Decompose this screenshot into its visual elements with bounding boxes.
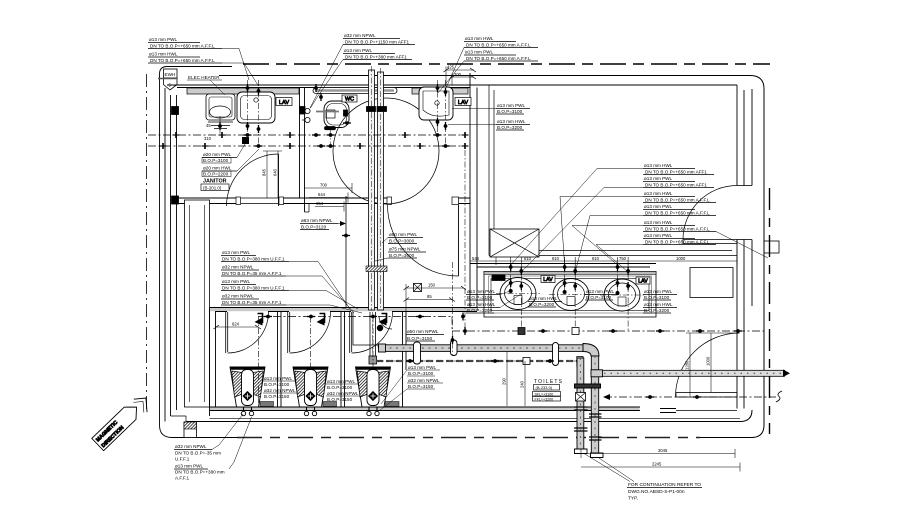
svg-text:ø13 mm HWL: ø13 mm HWL: [529, 296, 558, 301]
svg-text:FFL=+3200: FFL=+3200: [535, 398, 554, 402]
label T11 left of counter: [466, 289, 521, 313]
dims 700/644/654 wc room: [305, 183, 353, 212]
stall door 1 leaf arc hinge: [226, 312, 228, 353]
main elbow down right: [583, 344, 599, 357]
stall partition 3: [403, 312, 407, 408]
svg-text:SFL=+3100: SFL=+3100: [535, 393, 554, 397]
svg-text:644: 644: [318, 192, 326, 197]
svg-text:810: 810: [592, 256, 600, 261]
svg-text:FOR CONTINUATION REFER TO: FOR CONTINUATION REFER TO: [628, 482, 701, 488]
turning circle: [333, 98, 439, 204]
supply symbols top lav: [436, 84, 439, 92]
vertical capsule fittings on gray pipe: [414, 340, 559, 366]
svg-text:B.O.P=3100: B.O.P=3100: [586, 295, 612, 300]
outer west wall: [160, 67, 233, 75]
toilet supply lollipops: [241, 407, 379, 416]
svg-text:ø32 mm NPWL: ø32 mm NPWL: [264, 388, 296, 393]
grid dash-dot line far left vertical: [146, 74, 148, 412]
accessible WC toilet: [302, 101, 351, 146]
supply dash-dot verticals top lav: [437, 80, 439, 135]
svg-text:845: 845: [262, 168, 267, 176]
svg-text:DN TO B.O.P=-35 mm: DN TO B.O.P=-35 mm: [175, 451, 221, 456]
top-right LAV basin: [419, 87, 453, 120]
svg-text:DN TO B.O.P=35 mm A.F.F.1: DN TO B.O.P=35 mm A.F.F.1: [222, 271, 282, 276]
dim 425 top: [446, 69, 474, 71]
supply main dash-dot y135: [148, 134, 468, 136]
svg-text:ø13 mm PWL: ø13 mm PWL: [644, 233, 673, 238]
svg-text:B.O.P=3100: B.O.P=3100: [203, 158, 229, 163]
toilet 3: [356, 367, 391, 407]
svg-text:A.F.F.1: A.F.F.1: [175, 476, 189, 481]
svg-text:B.O.P=3100: B.O.P=3100: [497, 109, 523, 114]
svg-text:700: 700: [320, 183, 328, 188]
svg-text:ELEC HEATER: ELEC HEATER: [188, 75, 220, 80]
building south wall inner: [186, 410, 752, 422]
svg-text:810: 810: [552, 256, 560, 261]
label T1 top-left callout: [148, 37, 259, 86]
south outer dashed middle: [237, 437, 700, 439]
lav counter outline: [484, 272, 656, 318]
label T5 big room callouts: [511, 163, 768, 272]
EWH pentagon tag: [164, 78, 178, 90]
wall block janitor east: [300, 107, 306, 115]
LAV tag top right: [455, 98, 471, 106]
svg-text:1280: 1280: [685, 360, 690, 370]
lav basin 1: [496, 278, 540, 310]
svg-text:ø13 mm PWL: ø13 mm PWL: [497, 103, 526, 108]
fittings on y397: [646, 396, 654, 399]
label T17b toilet2: [326, 379, 362, 402]
bottom dim 2245: [581, 466, 740, 468]
wall between top rooms and big room: [470, 73, 477, 311]
corridor south walls right part: [660, 409, 676, 413]
LAV tag janitor: [276, 98, 292, 106]
svg-text:JANITOR: JANITOR: [203, 179, 227, 185]
svg-text:1000: 1000: [706, 356, 711, 366]
label T6 janitor pipes: [202, 139, 259, 177]
left small elbow and riser: [577, 357, 583, 367]
wall column block lower: [172, 196, 179, 204]
label T12: [528, 296, 562, 307]
svg-text:3045: 3045: [658, 448, 668, 453]
svg-text:ø13 mm HWL: ø13 mm HWL: [467, 302, 496, 307]
svg-text:B.O.P=3150: B.O.P=3150: [327, 397, 353, 402]
svg-text:ø13 mm HWL: ø13 mm HWL: [149, 52, 178, 57]
lav basin 3: [600, 279, 644, 311]
svg-text:85: 85: [427, 294, 432, 299]
svg-text:B.O.P=3100: B.O.P=3100: [467, 295, 493, 300]
svg-text:ø13 mm PWL: ø13 mm PWL: [644, 204, 673, 209]
svg-text:ø75 mm NPWL: ø75 mm NPWL: [389, 247, 421, 252]
svg-text:150: 150: [428, 283, 436, 288]
svg-text:B.O.P=3150: B.O.P=3150: [408, 384, 434, 389]
label T21 continuation note: [584, 454, 702, 502]
svg-text:45: 45: [206, 123, 211, 128]
vertical dims door right 1280/1000: [689, 333, 691, 396]
svg-text:ø13 mm PWL: ø13 mm PWL: [222, 279, 251, 284]
janitor LAV sink: [237, 92, 275, 123]
supply symbols wc: [315, 84, 318, 92]
svg-text:DN TO B.O.P=+380 mm: DN TO B.O.P=+380 mm: [175, 470, 225, 475]
door leaf bottom right: [676, 393, 737, 398]
small exterior box right: [764, 241, 779, 253]
svg-text:ø13 mm PWL: ø13 mm PWL: [222, 250, 251, 255]
mirror band top lav: [412, 88, 468, 94]
stall door 2: [288, 312, 290, 353]
svg-text:240: 240: [520, 380, 525, 388]
side counter right of lav: [690, 268, 733, 298]
svg-text:DN TO B.O.P=380 mm U.F.F.1: DN TO B.O.P=380 mm U.F.F.1: [222, 257, 285, 262]
svg-text:ø63 mm NPWL: ø63 mm NPWL: [301, 218, 333, 223]
svg-text:ø20 mm PWL: ø20 mm PWL: [203, 152, 232, 157]
mid wall band under janitor and wc room: [177, 198, 236, 204]
svg-text:DN TO B.O.P=+650 mm AFF1: DN TO B.O.P=+650 mm AFF1: [645, 183, 707, 188]
bottom-left column with hatch: [184, 422, 197, 438]
svg-text:ø13 mm HWL: ø13 mm HWL: [644, 163, 673, 168]
svg-text:LAV: LAV: [458, 100, 468, 106]
svg-text:DN TO B.O.P=+650 mm A.F.F.L: DN TO B.O.P=+650 mm A.F.F.L: [466, 56, 531, 61]
label T14 right of counter: [643, 289, 677, 313]
svg-text:DN TO B.O.P=+650 mm A.F.F.L: DN TO B.O.P=+650 mm A.F.F.L: [645, 240, 710, 245]
svg-text:B.O.P=3200: B.O.P=3200: [644, 308, 670, 313]
lav basin 2: [549, 279, 593, 311]
svg-text:290: 290: [502, 377, 507, 385]
tee to east pipe: [591, 370, 603, 377]
svg-text:2245: 2245: [652, 462, 662, 467]
toilet 2: [293, 367, 328, 407]
svg-text:B.O.P=3100: B.O.P=3100: [408, 371, 434, 376]
svg-text:B.O.P=3200: B.O.P=3200: [467, 308, 493, 313]
svg-text:DN TO B.O.P=35 mm A.F.F.1: DN TO B.O.P=35 mm A.F.F.1: [222, 300, 282, 305]
stall partition 1: [278, 312, 282, 408]
label T2 wc callout: [310, 33, 415, 108]
label T13: [585, 289, 619, 300]
svg-text:ø32 mm NPWL: ø32 mm NPWL: [327, 391, 359, 396]
basin supply dash-dot verticals: [511, 263, 628, 331]
svg-text:ø32 mm NPWL: ø32 mm NPWL: [175, 444, 207, 449]
clamp bar across risers: [575, 384, 601, 388]
supplies stall4: [451, 336, 454, 344]
east outer wall inner line: [751, 89, 753, 306]
svg-text:ø13 mm PWL: ø13 mm PWL: [175, 464, 204, 469]
plumbing chase wall tall rect: [185, 200, 210, 407]
svg-text:1000: 1000: [676, 256, 686, 261]
svg-text:548: 548: [472, 256, 480, 261]
svg-text:TYP.: TYP.: [628, 496, 638, 502]
riser flanges: [574, 407, 602, 440]
svg-text:DN TO B.O.P=+650 mm AFF1: DN TO B.O.P=+650 mm AFF1: [645, 170, 707, 175]
wc room door leaf and arc: [458, 205, 460, 276]
svg-text:B.O.P=3600: B.O.P=3600: [389, 253, 415, 258]
svg-text:DN TO B.O.P=+650 mm A.F.F.L: DN TO B.O.P=+650 mm A.F.F.L: [466, 43, 531, 48]
supply main dash-dot y146: [148, 145, 468, 147]
svg-text:ø32 mm NPWL: ø32 mm NPWL: [222, 265, 254, 270]
svg-text:ø32 mm NPWL: ø32 mm NPWL: [222, 294, 254, 299]
floor drain stall4: [414, 284, 422, 292]
svg-text:EWH: EWH: [165, 72, 176, 77]
svg-text:610: 610: [524, 256, 532, 261]
stall door 3: [350, 312, 352, 353]
grab bar: [313, 88, 397, 94]
stall partition 2: [341, 312, 345, 408]
valves on mains: [219, 132, 226, 138]
svg-text:624: 624: [232, 322, 240, 327]
right riser pipe: [591, 356, 598, 453]
dims 150/85 stall4: [406, 287, 464, 289]
LAV tag counter middle: [541, 276, 555, 283]
svg-text:DN TO B.O.P=+650 mm A.F.F.L: DN TO B.O.P=+650 mm A.F.F.L: [645, 198, 710, 203]
svg-text:B.O.P=3150: B.O.P=3150: [407, 336, 433, 341]
stall bottom wall: [210, 407, 641, 411]
building south wall outer solid parts: [700, 306, 764, 438]
east insulated pipe y373: [603, 370, 785, 376]
fittings on y361 line: [523, 358, 530, 365]
svg-text:ø13 mm PWL: ø13 mm PWL: [408, 365, 437, 370]
svg-text:ø13 mm PWL: ø13 mm PWL: [344, 48, 373, 53]
WC tag: [342, 95, 357, 102]
vertical dims at toilets right: [506, 352, 508, 406]
svg-text:B.O.P=3100: B.O.P=3100: [644, 295, 670, 300]
svg-text:ø13 mm HWL: ø13 mm HWL: [644, 191, 673, 196]
label T15 pipe 50mm: [406, 329, 444, 341]
svg-text:B.O.P=3100: B.O.P=3100: [327, 385, 353, 390]
svg-text:LAV: LAV: [638, 279, 648, 285]
big room door arc and leaf: [683, 186, 737, 240]
svg-text:B.O.P=3100: B.O.P=3100: [264, 382, 290, 387]
svg-text:LAV: LAV: [543, 277, 553, 283]
svg-text:DN TO B.O.P=+650 mm A.F.F.L: DN TO B.O.P=+650 mm A.F.F.L: [645, 227, 710, 232]
chase lower single pipe: [370, 312, 376, 356]
boundary dashed right vertical: [769, 188, 771, 434]
label T4 right of top lav: [448, 103, 530, 130]
svg-text:DN TO B.O.P=380 mm U.F.F.1: DN TO B.O.P=380 mm U.F.F.1: [222, 286, 285, 291]
label T8: [300, 218, 346, 230]
fitting on x346 line: [342, 234, 350, 237]
svg-text:750: 750: [619, 256, 627, 261]
svg-text:B.O.P=3200: B.O.P=3200: [529, 302, 555, 307]
svg-text:ø13 mm HWL: ø13 mm HWL: [497, 119, 526, 124]
stall west wall: [210, 308, 216, 417]
svg-text:DN TO B.O.P=+650 mm A.F.F.L: DN TO B.O.P=+650 mm A.F.F.L: [645, 211, 710, 216]
svg-text:DN TO B.O.P=+380 mm AFF1: DN TO B.O.P=+380 mm AFF1: [345, 55, 407, 60]
svg-text:ø50 mm NPWL: ø50 mm NPWL: [407, 329, 439, 334]
big room east partition: [737, 85, 744, 186]
toilet centerline dashdots: [310, 317, 312, 369]
label ELEC HEATER: [187, 75, 225, 95]
chase clamp black band: [367, 107, 376, 112]
bottom dim 3045: [581, 453, 735, 455]
big room south wall: [470, 264, 656, 268]
svg-text:U.F.F.1: U.F.F.1: [175, 457, 190, 462]
supply symbols basins: [509, 263, 512, 271]
X-box duct: [490, 229, 539, 257]
svg-text:ø50 mm PWL: ø50 mm PWL: [389, 232, 418, 237]
svg-text:ø13 mm PWL: ø13 mm PWL: [644, 176, 673, 181]
supply dash-dot verticals janitor: [247, 80, 249, 135]
heavy dash line y361: [376, 360, 577, 362]
svg-text:B.O.P=2200: B.O.P=2200: [203, 172, 229, 177]
svg-text:ø13 mm PWL: ø13 mm PWL: [586, 289, 615, 294]
janitor mop sink: [206, 94, 235, 120]
fittings on y316: [264, 315, 272, 318]
svg-text:310: 310: [204, 136, 212, 141]
svg-text:DWG.NO.ABSD-S-P1-00n: DWG.NO.ABSD-S-P1-00n: [628, 489, 685, 495]
janitor door leaf and arc: [278, 154, 280, 206]
LAV tag counter right: [636, 277, 650, 284]
fittings on drain y331: [518, 328, 525, 335]
big room inner rect: [489, 85, 494, 256]
chase elbow into pipe: [378, 345, 385, 352]
label T10 stall callouts left: [221, 250, 362, 313]
stall front wall: [210, 308, 478, 312]
counter area pipe dashdot vertical left: [464, 150, 466, 331]
gray pipe horizontal y348: [381, 345, 583, 352]
corridor partition line x346: [345, 196, 347, 310]
chase pipe left: [369, 70, 375, 310]
svg-text:(B-233.0): (B-233.0): [536, 385, 553, 390]
label T9: [375, 232, 426, 261]
riser end caps: [575, 449, 588, 454]
svg-text:DN TO B.O.P=+1150 mm AFF1: DN TO B.O.P=+1150 mm AFF1: [345, 40, 410, 45]
svg-text:ø13 mm PWL: ø13 mm PWL: [644, 289, 673, 294]
label T7 JANITOR room tag: [201, 179, 229, 191]
svg-text:ø32 mm NPWL: ø32 mm NPWL: [408, 378, 440, 383]
wall step bottom left: [171, 416, 187, 422]
drain dash-dot y331: [452, 330, 764, 332]
EWH box: [164, 69, 178, 78]
label T19 TOILETS room tag: [533, 379, 564, 402]
mirror band janitor: [187, 88, 299, 94]
svg-text:640: 640: [273, 168, 278, 176]
svg-text:ø13 mm PWL: ø13 mm PWL: [467, 289, 496, 294]
dim texts: [204, 65, 711, 467]
svg-text:ø13 mm PWL: ø13 mm PWL: [264, 376, 293, 381]
svg-text:(B-201.0): (B-201.0): [203, 186, 222, 191]
drain dash-dot y316: [258, 316, 452, 318]
supply symbols janitor sinks: [246, 84, 249, 92]
inner rect stall3 chase: [353, 312, 402, 346]
svg-text:WC: WC: [345, 97, 354, 103]
label T17c right of stalls: [379, 365, 443, 411]
toilet 1: [230, 367, 265, 407]
black soap dispenser: [492, 275, 505, 281]
dash-dot y397 with arrow and S end: [604, 396, 776, 398]
dim row y261 counter: [470, 257, 737, 265]
svg-text:ø13 mm HWL: ø13 mm HWL: [644, 220, 673, 225]
svg-text:ø13 mm PWL: ø13 mm PWL: [465, 50, 494, 55]
svg-text:LAV: LAV: [279, 100, 289, 106]
corridor door arc bottom right: [676, 333, 740, 397]
svg-text:425: 425: [447, 65, 455, 70]
site boundary dashed top: [243, 63, 770, 65]
svg-text:ø13 mm PWL: ø13 mm PWL: [327, 379, 356, 384]
svg-text:B.O.P=3000: B.O.P=3000: [389, 239, 415, 244]
svg-text:DN TO B.O.P=+650 mm A.F.F.L: DN TO B.O.P=+650 mm A.F.F.L: [150, 44, 215, 49]
chase hatch band: [366, 266, 387, 272]
stall3 chase arc and drain: [379, 316, 392, 329]
svg-text:ø13 mm HWL: ø13 mm HWL: [644, 302, 673, 307]
stall tags dark: [260, 402, 274, 407]
dim 624 stall1: [216, 326, 259, 328]
svg-text:ø20 mm HWL: ø20 mm HWL: [203, 166, 232, 171]
vertical dashdot stall1: [258, 317, 260, 406]
dim 300 top: [452, 76, 474, 78]
svg-text:ø13 mm PWL: ø13 mm PWL: [149, 37, 178, 42]
wall column block upper: [172, 107, 179, 115]
janitor east wall: [300, 88, 305, 213]
label T20 bottom-left callout: [174, 414, 252, 481]
valve box on left riser: [576, 393, 586, 402]
chase pipe right: [378, 72, 384, 310]
svg-text:B.O.P=3120: B.O.P=3120: [301, 225, 327, 230]
svg-text:ø13 mm HWL: ø13 mm HWL: [465, 36, 494, 41]
vertical dims 845/640 janitor: [263, 151, 282, 198]
label T3 top lav callout: [438, 36, 538, 93]
door jambs mid wall: [236, 197, 241, 205]
svg-text:DN TO B.O.P=+650 mm A.F.F.L: DN TO B.O.P=+650 mm A.F.F.L: [150, 58, 215, 63]
north wall outer face: [219, 76, 764, 307]
partition below door gap: [737, 240, 744, 409]
magnetic direction arrow: [92, 392, 154, 453]
label T17a toilet1: [263, 376, 299, 399]
svg-text:ø32 mm NPWL: ø32 mm NPWL: [344, 33, 376, 38]
stall4 supply vertical: [452, 262, 454, 355]
svg-text:B.O.P=3200: B.O.P=3200: [497, 125, 523, 130]
svg-text:654: 654: [316, 201, 324, 206]
north wall inner faces: [167, 85, 737, 88]
svg-text:B.O.P=3150: B.O.P=3150: [264, 394, 290, 399]
svg-text:300: 300: [454, 72, 462, 77]
